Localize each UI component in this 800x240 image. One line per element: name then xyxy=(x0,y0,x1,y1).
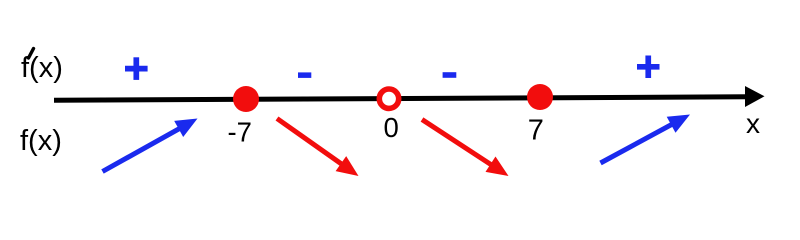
svg-text:7: 7 xyxy=(528,115,544,147)
increasing arrow (left, blue) xyxy=(103,119,198,172)
label f'(x) xyxy=(21,49,63,85)
sign - (between -7 and 0) xyxy=(298,72,311,78)
svg-text:-7: -7 xyxy=(228,117,252,148)
closed point at 7 xyxy=(527,84,553,110)
svg-text:x: x xyxy=(746,108,760,139)
closed point at -7 xyxy=(233,86,259,112)
svg-text:f(x): f(x) xyxy=(20,125,62,157)
sign - (between 0 and 7) xyxy=(443,72,457,78)
increasing arrow (right, blue) xyxy=(601,115,691,164)
decreasing arrow (left-mid, red) xyxy=(277,119,359,177)
number line axis xyxy=(54,97,747,100)
svg-text:0: 0 xyxy=(384,112,399,143)
open point at 0 xyxy=(379,89,398,108)
axis arrowhead xyxy=(745,86,765,107)
sign + (left region) xyxy=(125,57,148,80)
decreasing arrow (right-mid, red) xyxy=(422,120,509,177)
sign + (right region) xyxy=(637,56,660,79)
